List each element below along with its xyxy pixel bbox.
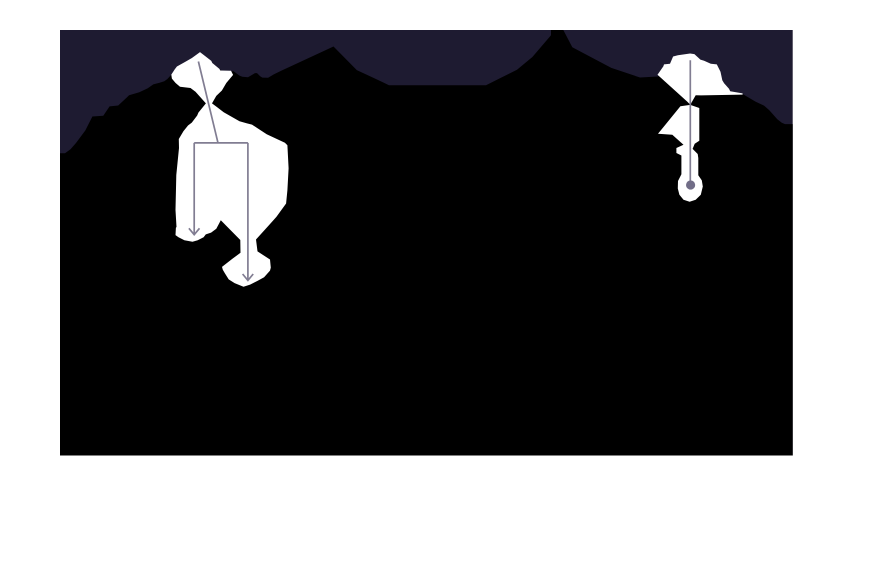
right arrowhead <box>243 274 254 280</box>
hero sky background <box>60 30 793 456</box>
diagonal leader from peak <box>198 62 218 143</box>
annotation leader lines <box>189 60 690 280</box>
bracket horizontal <box>194 142 248 144</box>
right pin line <box>689 60 691 184</box>
right glacier: tail with triangle and halo <box>658 105 703 202</box>
left arrowhead <box>189 228 200 234</box>
central glacier: snow cap + body + arrow lobes <box>171 52 288 287</box>
right vertical <box>247 143 249 281</box>
mountain silhouette <box>60 30 793 456</box>
pin dot <box>686 180 695 189</box>
right glacier: snow cap with right strip <box>658 54 743 105</box>
left vertical <box>193 143 195 235</box>
